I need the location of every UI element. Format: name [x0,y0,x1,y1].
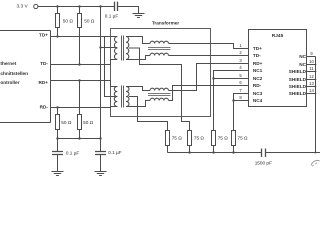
chassis ground [311,160,319,166]
capacitor C4 1500pF [255,149,272,166]
RJ45 left pin labels [253,46,263,103]
svg-text:75 Ω: 75 Ω [218,135,229,140]
wire TD- [51,60,118,65]
junction rail/feed [99,5,101,7]
wire T1 primary center tap [101,47,118,49]
choke L1 core [148,48,171,50]
svg-text:SHIELD: SHIELD [289,69,307,74]
wire T1 secondary bottom to choke L1 [126,56,150,60]
junction node/R4 [78,137,80,139]
wire T2 secondary bottom to choke L2 [126,101,150,107]
svg-text:4: 4 [239,65,242,70]
junction bus/R7 [212,151,214,153]
svg-text:50 Ω: 50 Ω [83,120,94,125]
wire choke L2 top to RJ45 pin3 [169,64,249,91]
ground (bottom left) [52,172,64,176]
wire RJ45 pin7 to R75-4 column [234,94,249,131]
RJ45 left pin numbers [239,43,242,100]
choke L2 bottom winding [150,98,169,100]
wire choke L2 bottom to RJ45 pin6 [169,86,249,101]
resistor R7 75ohm [212,131,229,153]
svg-text:RJ45: RJ45 [272,33,284,39]
junction bus/R6 [188,151,190,153]
wire RD termination node [58,138,101,140]
Ethernet controller box U1 [0,31,51,123]
svg-text:NC3: NC3 [253,91,263,96]
svg-text:SHIELD: SHIELD [289,91,307,96]
svg-text:NC: NC [299,62,306,67]
svg-text:NC: NC [299,54,306,59]
svg-text:75 Ω: 75 Ω [172,135,183,140]
svg-text:75 Ω: 75 Ω [238,135,249,140]
svg-text:RD-: RD- [40,105,49,110]
transformer T2 core [122,86,124,108]
svg-text:0.1 µF: 0.1 µF [105,13,119,18]
RJ45 connector box [249,30,307,107]
resistor R5 75ohm [166,131,183,153]
transformer T2 primary winding [114,87,117,107]
transformer group box [111,29,211,117]
svg-text:0.1 µF: 0.1 µF [108,150,122,155]
svg-text:thernet: thernet [0,61,16,66]
wire 3.3V rail [38,6,115,8]
resistor R4 50ohm (RD+ termination) [78,79,94,138]
resistor R8 75ohm [232,131,249,153]
ground (bottom middle) [95,172,107,176]
RJ45 right pin numbers [309,51,314,93]
svg-text:ontroller: ontroller [0,80,19,85]
wire choke L1 bottom to RJ45 pin2 [169,55,249,57]
junction shield bus pins [315,64,317,66]
wire T2 secondary top to choke L2 [126,87,150,91]
choke L2 top winding [150,88,169,90]
junction pin8/column [232,99,234,101]
svg-text:8: 8 [239,95,242,100]
svg-text:TD+: TD+ [253,46,262,51]
svg-text:14: 14 [309,88,314,93]
capacitor C1 0.1uF (rail decoupling) [105,2,119,19]
wire T2 secondary center tap down to R75-1 [129,97,168,131]
svg-text:11: 11 [309,66,314,71]
svg-text:NC1: NC1 [253,68,263,73]
svg-text:RD-: RD- [253,83,262,88]
svg-text:12: 12 [309,74,314,79]
transformer T2 secondary winding [126,87,129,107]
resistor R3 50ohm (RD- termination) [56,106,72,138]
choke L1 top winding [150,41,169,43]
wire shield vertical bus [315,57,317,153]
svg-text:SHIELD: SHIELD [289,77,307,82]
wire RJ45 pin4 to R75-3 column [214,71,249,131]
junction node/feed [99,137,101,139]
svg-text:TD-: TD- [253,53,261,58]
wire T1 secondary center tap down to R75-2 [129,48,190,131]
wire 3.3V down feed [100,7,102,139]
wire RD- [51,107,118,108]
svg-text:2: 2 [239,50,242,55]
svg-text:9: 9 [310,51,313,56]
svg-text:50 Ω: 50 Ω [63,18,74,23]
svg-text:75 Ω: 75 Ω [194,135,205,140]
wire choke L1 top to RJ45 pin1 [169,44,249,49]
wire shield bus bottom [168,152,262,154]
RJ45 right pin stubs (shield) [307,57,316,94]
junction bus/shield [315,152,317,154]
svg-text:6: 6 [239,80,242,85]
power terminal 3.3V [16,3,37,9]
svg-text:RD+: RD+ [253,61,263,66]
svg-text:7: 7 [239,88,242,93]
svg-text:5: 5 [239,73,242,78]
capacitor C3 0.1uF (bottom, at 3.3V feed) [95,139,122,172]
junction rail/R2 [78,5,80,7]
svg-text:Transformer: Transformer [152,21,180,26]
wire RD+ [51,81,118,87]
svg-text:13: 13 [309,81,314,86]
wire T1 secondary top to choke L1 [126,37,150,44]
junction rail/R1 [56,5,58,7]
svg-text:NC4: NC4 [253,98,263,103]
svg-text:RD+: RD+ [38,80,48,85]
svg-text:10: 10 [309,59,314,64]
wire rail to ground cap [118,7,139,14]
choke L1 bottom winding [150,53,169,55]
svg-text:1: 1 [239,43,242,48]
wire T2 primary center tap feed [105,37,118,97]
transformer T1 primary winding [114,37,117,60]
capacitor C2 0.1uF (left bottom) [52,139,79,172]
resistor R6 75ohm [188,131,205,153]
wire RJ45 pin5 [214,78,249,80]
svg-text:0.1 µF: 0.1 µF [66,151,80,156]
junction pin5/column [212,77,214,79]
wire TD+ [51,36,118,38]
junction bus/R8 [232,151,234,153]
svg-text:SHIELD: SHIELD [289,84,307,89]
RJ45 right pin labels [289,54,307,96]
transformer T1 secondary winding [126,37,129,60]
svg-text:3: 3 [239,58,242,63]
svg-text:TD+: TD+ [39,33,48,38]
svg-text:TD-: TD- [40,61,48,66]
svg-text:50 Ω: 50 Ω [84,18,95,23]
resistor R2 50ohm (TD- pullup) [78,7,95,66]
junction node/R3 [56,137,58,139]
choke L2 core [148,94,171,96]
svg-text:NC2: NC2 [253,76,263,81]
wire 1500pF to chassis [266,152,320,154]
svg-text:1500 pF: 1500 pF [255,161,272,166]
resistor R1 50ohm (TD+ pullup) [56,7,74,38]
transformer T1 core [122,36,124,61]
wire RJ45 pin8 [234,100,249,102]
ground (top, at C1) [133,14,145,18]
svg-text:3.3 V: 3.3 V [16,3,28,9]
svg-text:chnittstellen: chnittstellen [0,71,28,76]
junction feed/center tap [99,46,101,48]
svg-text:50 Ω: 50 Ω [61,120,72,125]
